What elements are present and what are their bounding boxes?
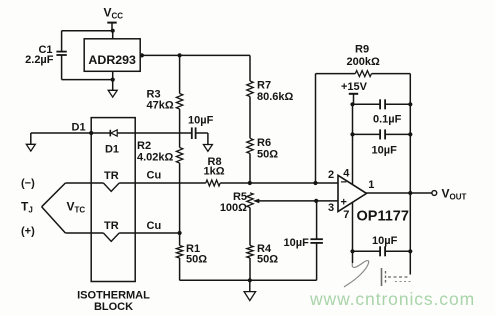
svg-text:50Ω: 50Ω	[186, 254, 207, 266]
svg-text:4: 4	[343, 168, 350, 180]
wire R6 to node	[249, 154, 251, 184]
ground top left	[30, 133, 32, 144]
svg-text:50Ω: 50Ω	[257, 149, 278, 161]
wire R3 to R2	[179, 109, 181, 148]
resistor R1 50	[176, 246, 182, 259]
capacitor 10uF pin3	[316, 201, 318, 239]
wire C1 bottom to ADR293 bottom	[62, 79, 113, 81]
svg-text:BLOCK: BLOCK	[94, 301, 133, 313]
wire R5 to R4	[249, 208, 251, 246]
10uF row	[350, 132, 354, 136]
svg-text:+: +	[341, 197, 347, 209]
svg-text:80.6kΩ: 80.6kΩ	[257, 91, 294, 103]
wire 1 (Cu, to pin2) with TR junction	[65, 182, 103, 184]
capacitor 10uF output	[379, 246, 381, 256]
svg-text:4.02kΩ: 4.02kΩ	[137, 152, 174, 164]
svg-text:(+): (+)	[21, 226, 35, 238]
svg-text:10µF: 10µF	[372, 235, 398, 247]
svg-text:www.cntronics.com: www.cntronics.com	[309, 289, 475, 309]
wire R4 to ground rail	[249, 258, 251, 280]
ground for 10uF	[203, 145, 212, 152]
Vcc terminal bar	[107, 22, 116, 24]
wiper arrow	[253, 199, 259, 204]
artifact squiggle	[344, 261, 369, 287]
node Vcc junction	[111, 29, 115, 33]
wire R1 to ground rail	[179, 258, 181, 280]
svg-text:TR: TR	[104, 170, 119, 182]
svg-text:R9: R9	[355, 44, 369, 56]
capacitor C1	[61, 31, 63, 52]
svg-text:R2: R2	[137, 140, 151, 152]
wire gnd to box	[31, 132, 91, 134]
wire 2 (Cu, lower) with TR junction	[65, 232, 103, 234]
ground symbol bottom	[249, 280, 251, 291]
node pin3 / cap	[314, 199, 318, 203]
feedback left vertical	[315, 74, 317, 183]
svg-text:10µF: 10µF	[372, 145, 398, 157]
remnant below left	[352, 251, 354, 263]
remnant below right	[409, 251, 411, 274]
ground below ADR293	[112, 80, 114, 91]
capacitor 10uF supply	[379, 129, 381, 139]
svg-text:R7: R7	[257, 80, 271, 92]
pin 7 stem	[352, 203, 354, 252]
wire to diode	[91, 132, 110, 134]
svg-text:Cu: Cu	[147, 170, 162, 182]
svg-text:2.2µF: 2.2µF	[25, 54, 54, 66]
op-amp OP1177	[338, 175, 367, 211]
node ground rail	[248, 278, 252, 282]
svg-text:10µF: 10µF	[284, 237, 310, 249]
wire C1 top to Vcc node	[62, 30, 113, 32]
node R3 top junction	[178, 53, 182, 57]
svg-text:(−): (−)	[21, 178, 35, 190]
svg-text:TR: TR	[104, 220, 119, 232]
thermocouple TJ	[42, 183, 66, 207]
ground rail	[180, 279, 317, 281]
svg-text:10µF: 10µF	[188, 115, 214, 127]
voltage reference ADR293	[84, 39, 140, 72]
isothermal block box	[91, 118, 135, 282]
wire R7 to R6	[249, 97, 251, 139]
resistor R2 4.02k	[176, 148, 182, 164]
svg-text:Cu: Cu	[147, 220, 162, 232]
wire pin3 from wiper	[259, 200, 338, 202]
output wire	[367, 192, 432, 194]
resistor R6 50	[247, 138, 253, 153]
svg-text:D1: D1	[72, 122, 86, 134]
node ADR293 gnd junction	[111, 78, 115, 82]
node Cu wire 2 junction	[178, 231, 182, 235]
+15V terminal bar	[349, 93, 358, 95]
wire to R1	[179, 233, 181, 246]
svg-text:D1: D1	[105, 144, 119, 156]
wire down to R3	[179, 55, 181, 93]
svg-text:3: 3	[328, 202, 334, 214]
node at box edge	[89, 131, 93, 135]
svg-text:100Ω: 100Ω	[220, 202, 247, 214]
output terminal	[432, 191, 437, 196]
bottom 10uF row	[350, 249, 354, 253]
svg-text:0.1µF: 0.1µF	[373, 114, 402, 126]
svg-text:R6: R6	[257, 137, 271, 149]
artifact dashed cap	[381, 268, 383, 286]
resistor R7 80.6k	[247, 81, 253, 97]
resistor R8 1k	[206, 180, 220, 186]
left vertical between rows	[352, 104, 354, 134]
resistor R5 100 pot	[247, 193, 253, 208]
feedback right vertical	[409, 74, 411, 193]
svg-text:7: 7	[343, 209, 349, 221]
svg-text:47kΩ: 47kΩ	[147, 100, 174, 112]
svg-text:+15V: +15V	[341, 81, 368, 93]
output down to cap row	[409, 193, 411, 251]
svg-text:200kΩ: 200kΩ	[347, 56, 380, 68]
wire ADR293 bottom pin	[112, 71, 114, 79]
diode D1	[109, 130, 111, 137]
0.1uF row	[350, 102, 354, 106]
node wire1 / feedback	[313, 181, 317, 185]
node output	[408, 191, 412, 195]
node wire1 / column	[248, 181, 252, 185]
pin 4 stem	[352, 134, 354, 184]
svg-text:OP1177: OP1177	[357, 209, 409, 225]
svg-text:1kΩ: 1kΩ	[204, 166, 225, 178]
svg-text:2: 2	[328, 169, 334, 181]
wire ADR293 output	[140, 54, 250, 56]
resistor R3 47k	[176, 94, 182, 110]
wire R2 down across Cu wire	[179, 163, 181, 233]
wire down to R7	[249, 55, 251, 81]
resistor R9 200k	[355, 71, 371, 77]
svg-text:ISOTHERMAL: ISOTHERMAL	[77, 290, 150, 302]
node ADR293 output	[140, 53, 144, 57]
capacitor 0.1uF	[379, 99, 381, 109]
wire ADR293 top pin	[112, 31, 114, 39]
svg-text:50Ω: 50Ω	[257, 254, 278, 266]
svg-text:ADR293: ADR293	[88, 53, 136, 67]
resistor R4 50	[247, 246, 253, 259]
capacitor 10uF (reference filter)	[191, 127, 193, 139]
feedback top wire	[316, 73, 356, 75]
svg-text:1: 1	[368, 179, 374, 191]
wire diode to cap	[117, 132, 191, 134]
